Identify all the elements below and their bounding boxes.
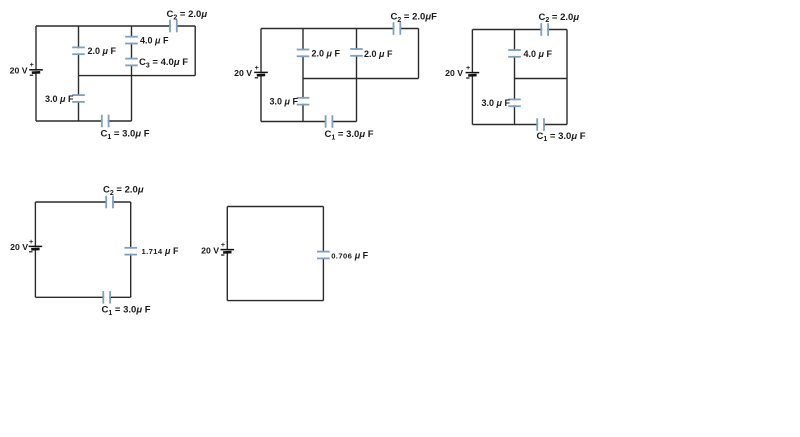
wire W17 circuit3 middle vertical: [514, 30, 516, 125]
svg-text:2.0 μ F: 2.0 μ F: [88, 46, 117, 56]
capacitor 0.706 uF equivalent (circuit 5 right): [316, 252, 330, 259]
capacitor C2 = 2.0 uF (circuit 3 top): [541, 23, 548, 37]
wire W28 circuit5 bottom: [227, 300, 323, 302]
wire W7 circuit1 bottom: [36, 120, 132, 122]
wire W21 circuit4 top: [35, 201, 130, 203]
wire W12 circuit2 right: [418, 29, 420, 79]
wire W5 circuit1 right: [194, 26, 196, 76]
wire W10 circuit2 inner-left vertical: [302, 29, 304, 122]
capacitor 4.0 uF (circuit 3): [508, 50, 522, 57]
svg-text:0.706 μ F: 0.706 μ F: [331, 250, 368, 260]
wire W24 circuit4 bottom: [35, 296, 130, 298]
node: circuit 4 (right branch reduced to 1.714 uF): [0, 0, 1, 1]
capacitor 2.0 uF (circuit 1): [72, 47, 86, 54]
node: circuit 2 (series pairs combined): [0, 0, 1, 1]
capacitor C2 = 2.0 uF (circuit 1 top): [170, 19, 177, 33]
wire W27 circuit5 right: [322, 207, 324, 301]
svg-text:20 V: 20 V: [10, 242, 28, 252]
svg-text:C2​ = 2.0μ: C2​ = 2.0μ: [539, 12, 580, 24]
capacitor 3.0 uF (circuit 1): [72, 95, 86, 102]
wire W15 circuit3 top: [472, 29, 567, 31]
wire W2 circuit1 left: [35, 26, 37, 121]
svg-text:20 V: 20 V: [10, 65, 28, 75]
svg-text:+: +: [466, 63, 470, 72]
capacitor 3.0 uF (circuit 2): [296, 98, 310, 105]
svg-text:C2​ = 2.0μ: C2​ = 2.0μ: [103, 185, 144, 197]
wire W25 circuit5 top: [227, 206, 323, 208]
svg-text:20 V: 20 V: [234, 68, 252, 78]
svg-text:3.0 μ F: 3.0 μ F: [482, 98, 511, 108]
capacitor 4.0 uF (circuit 1): [125, 37, 139, 44]
wire W1 circuit1 top: [36, 25, 195, 27]
wire W8 circuit2 top: [261, 28, 419, 30]
svg-text:+: +: [255, 63, 259, 72]
wire W14 circuit2 bottom: [261, 121, 357, 123]
capacitor C2 = 2.0 uF (circuit 4 top): [106, 195, 113, 209]
svg-text:20 V: 20 V: [445, 68, 463, 78]
wire W4 circuit1 inner-right vertical: [131, 26, 133, 121]
wire W20 circuit3 bottom: [472, 124, 567, 126]
capacitor 1.714 uF (circuit 4 right): [124, 248, 138, 255]
capacitor 3.0 uF (circuit 3): [508, 99, 522, 106]
wire W22 circuit4 left: [34, 202, 36, 297]
svg-text:3.0 μ F: 3.0 μ F: [270, 97, 299, 107]
svg-text:+: +: [29, 237, 33, 246]
wire W26 circuit5 left: [226, 207, 228, 301]
wire W6 circuit1 middle horizontal: [79, 75, 196, 77]
battery V1 20 V (circuit 2): [254, 63, 268, 78]
capacitor C2 = 2.0 uF (circuit 2 top): [394, 22, 401, 36]
wire W3 circuit1 inner-left vertical: [78, 26, 80, 121]
capacitor C1 = 3.0 uF (circuit 2 bottom): [326, 115, 333, 129]
capacitor C3 = 4.0 uF (circuit 1): [125, 59, 139, 66]
node: circuit 1 (original network): [0, 0, 1, 1]
wire W23 circuit4 right: [130, 202, 132, 297]
wire W9 circuit2 left: [260, 29, 262, 122]
capacitor C1 = 3.0 uF (circuit 3 bottom): [537, 118, 544, 132]
node: circuit 5 (single equivalent capacitor): [0, 0, 1, 1]
battery V1 20 V (circuit 4): [29, 237, 43, 252]
wire W11 circuit2 inner-right vertical: [356, 29, 358, 122]
wire W19 circuit3 middle horizontal: [515, 78, 568, 80]
svg-text:+: +: [221, 240, 225, 249]
battery V1 20 V (circuit 5): [221, 240, 235, 255]
node: circuit 3 (parallel pair combined): [0, 0, 1, 1]
battery V1 20 V (circuit 1): [29, 60, 43, 75]
battery V1 20 V (circuit 3): [466, 63, 480, 78]
wire W13 circuit2 middle horizontal: [303, 78, 419, 80]
svg-text:4.0 μ F: 4.0 μ F: [140, 35, 169, 45]
capacitor 2.0 uF right (circuit 2): [350, 49, 364, 56]
capacitor C1 = 3.0 uF (circuit 4 bottom): [103, 290, 110, 304]
svg-text:4.0 μ F: 4.0 μ F: [524, 49, 553, 59]
svg-text:2.0 μ F: 2.0 μ F: [364, 49, 393, 59]
capacitor 2.0 uF left (circuit 2): [296, 50, 310, 57]
wire W18 circuit3 right: [566, 30, 568, 125]
capacitor C1 = 3.0 uF (circuit 1 bottom): [102, 114, 109, 128]
svg-text:3.0 μ F: 3.0 μ F: [45, 94, 74, 104]
svg-text:20 V: 20 V: [201, 246, 219, 256]
svg-text:+: +: [30, 60, 34, 69]
svg-text:1.714 μ F: 1.714 μ F: [142, 246, 179, 256]
svg-text:2.0 μ F: 2.0 μ F: [312, 48, 341, 58]
svg-text:C2​ = 2.0μ: C2​ = 2.0μ: [167, 9, 208, 21]
wire W16 circuit3 left: [471, 30, 473, 125]
